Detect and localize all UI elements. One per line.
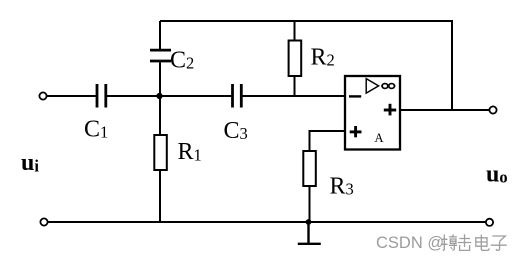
watermark glyph bo [441,234,457,250]
watermark glyph ji [458,234,471,250]
ground node junction dot [306,219,312,225]
wire input terminal to C1 [47,95,96,97]
wire op-amp noninverting input to R3 [310,131,346,151]
wire node A down to R1 [159,96,161,135]
watermark glyph dian [476,235,489,251]
input terminal ui bottom [40,218,47,225]
capacitor C1 [97,84,106,108]
resistor R2 [289,41,302,77]
output terminal uo top [489,106,496,113]
wire top feedback rail [160,21,452,110]
resistor R3 [303,151,316,186]
wire C2 bottom to node A [159,61,161,96]
op-amp noninverting input plus sign [350,126,362,137]
output terminal uo bottom [486,219,493,226]
watermark glyph zi [491,236,507,251]
input terminal ui top [39,92,46,99]
svg-text:CSDN @: CSDN @ [376,234,444,252]
wire R3 to ground node [309,186,311,222]
wire op-amp output [400,109,489,111]
node A junction dot [156,93,162,99]
op-amp output plus sign [384,104,396,116]
svg-text:A: A [375,131,384,145]
capacitor C3 [233,84,242,108]
wire C2 top stub to top rail [159,21,161,49]
op-amp triangle symbol [366,79,378,94]
wire bottom rail [48,221,486,223]
wire C1 to C3 [106,95,232,97]
wire C3 to op-amp inverting input [241,95,345,97]
op-amp infinity gain symbol [382,84,394,89]
capacitor C2 [150,50,171,61]
ground [298,222,321,244]
op-amp inverting input minus sign [349,95,361,97]
wire R1 to bottom rail [159,170,161,222]
wire R2 to inverting input wire [294,76,296,96]
resistor R1 [154,135,167,170]
wire top rail to R2 [294,21,296,41]
op-amp U1 box [345,76,400,150]
